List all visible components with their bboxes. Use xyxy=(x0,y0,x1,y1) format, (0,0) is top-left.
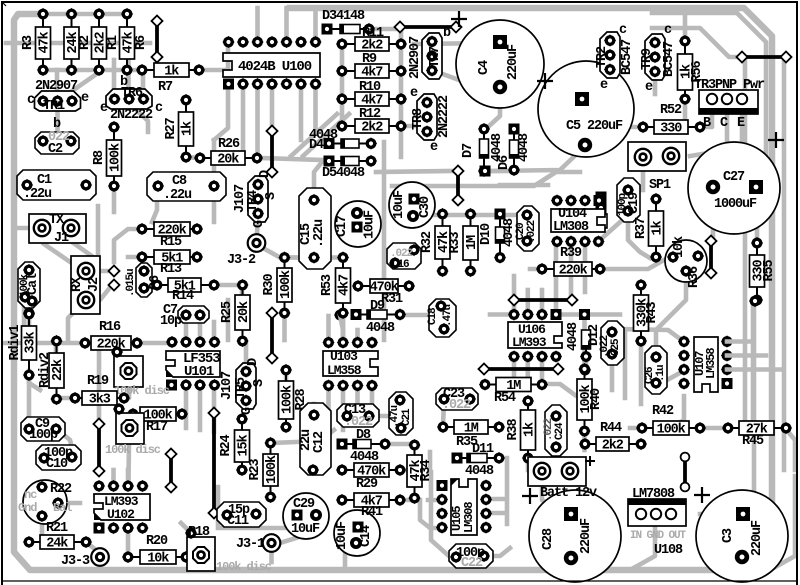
resistor R26 xyxy=(194,151,263,168)
svg-text:e: e xyxy=(645,80,653,95)
jumper W10 xyxy=(165,448,176,492)
svg-text:D54048: D54048 xyxy=(322,166,365,181)
svg-text:R39: R39 xyxy=(560,246,582,261)
wire R45 right xyxy=(785,428,795,470)
svg-text:J1: J1 xyxy=(54,231,69,246)
wire C28 bottom xyxy=(569,562,574,570)
svg-text:LM7808: LM7808 xyxy=(632,487,675,502)
svg-text:220uF: 220uF xyxy=(750,520,765,556)
svg-text:R26: R26 xyxy=(218,137,240,152)
svg-text:.022: .022 xyxy=(526,220,538,243)
wire jack region xyxy=(58,501,80,506)
svg-text:1k: 1k xyxy=(523,422,538,437)
svg-text:2k2: 2k2 xyxy=(361,121,383,136)
resistor R37 xyxy=(634,193,666,263)
jumper W3 xyxy=(736,51,791,62)
jumper W14 xyxy=(266,125,277,177)
capacitor C4 xyxy=(456,20,544,108)
svg-text:c: c xyxy=(27,93,35,108)
resistor R35 xyxy=(437,420,505,437)
svg-text:C21: C21 xyxy=(401,408,413,426)
wire J2 pads to diamonds xyxy=(90,269,112,274)
svg-text:10uF: 10uF xyxy=(363,210,378,239)
jumper W4 xyxy=(452,165,463,205)
capacitor C17 xyxy=(335,201,381,247)
svg-text:2k2: 2k2 xyxy=(602,439,624,454)
svg-text:2N2907: 2N2907 xyxy=(408,36,423,79)
svg-text:.22u: .22u xyxy=(163,188,192,203)
svg-text:20k: 20k xyxy=(217,153,239,168)
wire Cal bottom down xyxy=(22,305,27,333)
svg-text:b: b xyxy=(443,26,451,41)
wire R29 row xyxy=(400,468,413,473)
capacitor C27 xyxy=(688,142,780,234)
svg-text:LM393: LM393 xyxy=(512,335,547,350)
svg-text:10uF: 10uF xyxy=(291,522,320,537)
svg-text:TR9: TR9 xyxy=(640,48,655,70)
capacitor C15 xyxy=(299,188,331,269)
wire row y257 xyxy=(285,255,341,260)
wire TR3 C down xyxy=(690,104,727,156)
svg-text:R10: R10 xyxy=(359,80,381,95)
trimmer R18 xyxy=(185,527,215,571)
svg-text:C11: C11 xyxy=(227,514,249,529)
svg-text:10p: 10p xyxy=(160,314,182,329)
svg-text:220k: 220k xyxy=(559,264,588,279)
wire R15 row to C6 xyxy=(114,229,142,262)
svg-text:C22: C22 xyxy=(461,556,483,571)
wire C8 to R15 xyxy=(152,186,157,222)
diode D3 xyxy=(322,23,376,35)
svg-text:U103: U103 xyxy=(330,349,358,364)
resistor Rdiv2 xyxy=(38,335,66,405)
svg-text:R17: R17 xyxy=(146,420,168,435)
svg-text:R9: R9 xyxy=(362,52,377,67)
wire SP1 left pad down xyxy=(641,162,646,190)
wire row y215 C30-D10 xyxy=(413,213,499,218)
IC U106 xyxy=(508,308,562,362)
capacitor C19 xyxy=(617,178,642,222)
svg-text:C30: C30 xyxy=(418,196,433,218)
capacitor C1 xyxy=(17,170,96,202)
svg-text:IN GND OUT: IN GND OUT xyxy=(630,530,687,542)
capacitor C2 xyxy=(35,130,79,157)
svg-text:e: e xyxy=(410,86,418,101)
svg-text:U108: U108 xyxy=(654,543,683,558)
resistor R16 xyxy=(79,336,143,353)
svg-text:100k: 100k xyxy=(265,455,280,484)
svg-text:c: c xyxy=(155,101,163,116)
svg-text:R38: R38 xyxy=(506,418,521,440)
wire under C11 horizontal xyxy=(222,519,321,528)
wire TR3 E to C27 xyxy=(714,104,742,187)
resistor R17 xyxy=(127,407,188,424)
IC U105 xyxy=(436,479,492,535)
jack J4 xyxy=(18,480,72,524)
svg-text:100k disc: 100k disc xyxy=(216,560,272,574)
wire R27 bottom to R26 xyxy=(186,157,199,158)
wire C27 pad down xyxy=(711,191,716,240)
svg-text:R55: R55 xyxy=(762,259,777,281)
capacitor C29 xyxy=(283,493,329,539)
svg-text:.47u: .47u xyxy=(442,304,454,327)
resistor R20 xyxy=(122,550,192,567)
wire R55 top to C27 xyxy=(755,192,760,243)
wire U101 bottom stubs xyxy=(184,385,189,428)
wire pads to TR1 diagonal xyxy=(52,73,98,100)
svg-text:Rdiv2: Rdiv2 xyxy=(38,352,53,388)
wire R9-R12 left column xyxy=(340,44,345,126)
wire C13 right to R34col xyxy=(369,414,390,419)
wire R42 row xyxy=(700,426,728,431)
resistor R54 xyxy=(479,378,548,395)
resistor R55 xyxy=(750,237,778,306)
svg-text:LM308: LM308 xyxy=(553,220,589,235)
trimmer T1 xyxy=(111,346,143,387)
wire Rdiv2 top xyxy=(54,341,59,353)
diamond node a xyxy=(108,265,119,276)
svg-text:R11: R11 xyxy=(362,26,384,41)
svg-text:2N2222: 2N2222 xyxy=(437,95,452,138)
svg-text:D: D xyxy=(258,170,273,178)
resistor R14 xyxy=(151,278,220,295)
wire U104 to U106 verticals xyxy=(554,246,559,312)
wire board outline right xyxy=(290,8,772,560)
wire R42 left xyxy=(630,426,642,431)
wire C5 pad to D7/D6 row xyxy=(490,148,583,171)
svg-text:100p: 100p xyxy=(29,428,58,443)
resistor R27 xyxy=(164,94,196,163)
wire right mid verticals xyxy=(751,301,756,428)
svg-text:J107: J107 xyxy=(220,371,235,400)
diode D9 xyxy=(351,308,407,320)
jumper W9 xyxy=(93,418,104,476)
svg-text:R31: R31 xyxy=(381,292,403,307)
capacitor C3 xyxy=(696,490,788,582)
svg-text:.47u: .47u xyxy=(389,405,401,428)
diode D8 xyxy=(337,438,392,450)
capacitor C23 xyxy=(436,387,478,413)
svg-text:LM358: LM358 xyxy=(704,348,718,379)
wire R13 left xyxy=(128,255,142,260)
svg-text:b: b xyxy=(120,75,128,90)
wire U100 top stubs xyxy=(255,8,260,42)
wire Rdiv1 bottom down xyxy=(27,378,32,424)
wire Batt down to C28 xyxy=(542,486,556,510)
capacitor C24 xyxy=(543,405,567,456)
capacitor C13 xyxy=(337,403,379,430)
IC U100 xyxy=(222,36,321,90)
svg-text:U101: U101 xyxy=(184,364,214,380)
svg-text:nc: nc xyxy=(24,488,37,502)
svg-text:C2: C2 xyxy=(48,142,63,157)
svg-text:e: e xyxy=(100,101,108,116)
wire D8 row xyxy=(385,442,413,447)
jumper W11 xyxy=(681,453,690,492)
svg-text:R32: R32 xyxy=(420,231,435,253)
svg-text:Gnd: Gnd xyxy=(18,501,37,515)
svg-text:1000uF: 1000uF xyxy=(714,197,757,212)
resistor R45 xyxy=(722,421,792,438)
svg-text:100k: 100k xyxy=(19,273,31,297)
wire R18 diag xyxy=(181,523,191,533)
wire U106 pin14 left xyxy=(512,276,517,312)
resistor R2 xyxy=(64,8,93,76)
resistor Rdiv1 xyxy=(8,308,39,381)
cross mark 3 xyxy=(768,132,784,148)
wire BC547 stubs down xyxy=(598,70,610,110)
svg-text:C3: C3 xyxy=(721,528,736,543)
svg-text:4048: 4048 xyxy=(517,133,532,162)
wire R56 down xyxy=(683,99,688,118)
wire R30 down to U101 area xyxy=(282,313,287,340)
transistor TR7 xyxy=(422,33,442,79)
wire D3 to R11 xyxy=(369,29,401,157)
wire J2 to R16 row xyxy=(68,302,84,340)
svg-text:e: e xyxy=(600,78,608,93)
wire Rdiv1 column xyxy=(27,314,32,326)
resistor R1 xyxy=(92,8,122,76)
wire R21 right to J3-3 xyxy=(86,542,96,550)
wire C25 top to U107 xyxy=(620,329,683,341)
svg-text:C16: C16 xyxy=(392,259,409,271)
wire R1 col down to TR6 xyxy=(112,60,117,97)
wire R54 right xyxy=(542,384,575,395)
resistor R6 xyxy=(120,8,150,76)
square pad D12 top xyxy=(579,309,590,320)
svg-text:1k: 1k xyxy=(651,220,666,235)
svg-text:R7: R7 xyxy=(158,80,173,95)
svg-text:e: e xyxy=(430,140,438,155)
transistor TR8 xyxy=(411,94,437,140)
wire R26 right to D5 xyxy=(262,158,322,160)
transistor TR9 xyxy=(640,34,665,80)
svg-text:20k: 20k xyxy=(237,301,252,323)
wire top-right inner 1 xyxy=(652,13,766,210)
svg-text:C29: C29 xyxy=(293,497,315,512)
wire R40 col xyxy=(582,431,587,450)
svg-text:100k: 100k xyxy=(279,270,294,299)
svg-text:R23: R23 xyxy=(248,458,263,480)
wire R14 right to R25 xyxy=(214,283,242,288)
resistor R12 xyxy=(336,119,407,136)
wire C19 down xyxy=(628,216,650,258)
transistor TR4 xyxy=(248,176,268,222)
wire U101 top stubs xyxy=(184,320,189,342)
svg-text:R36: R36 xyxy=(687,266,702,288)
wire U105 right pads xyxy=(486,497,505,502)
wire C25 down xyxy=(610,364,615,390)
svg-text:24k: 24k xyxy=(46,537,68,552)
wire C3 bottom xyxy=(740,562,745,570)
label plus batt xyxy=(585,456,595,466)
wire C9/C10 area xyxy=(57,429,72,448)
cross mark 1 xyxy=(451,11,467,27)
svg-text:R6: R6 xyxy=(134,35,149,50)
svg-text:R42: R42 xyxy=(652,404,674,419)
wire J3-1 right xyxy=(280,538,296,543)
diode D5 xyxy=(324,155,378,167)
svg-text:G: G xyxy=(252,220,267,228)
resistor R43 xyxy=(634,279,661,347)
wire R41 row xyxy=(400,498,413,503)
transistor TR2 xyxy=(595,32,620,78)
svg-text:S: S xyxy=(252,379,267,387)
square pad D6 bottom xyxy=(480,166,491,177)
svg-text:R54: R54 xyxy=(494,391,516,406)
diode D7 xyxy=(478,123,490,177)
speaker connector SP1 xyxy=(628,142,686,171)
svg-text:15k: 15k xyxy=(237,434,252,456)
resistor R28 xyxy=(279,364,310,433)
jumper W2 xyxy=(394,21,461,32)
svg-text:4048: 4048 xyxy=(465,464,494,479)
wire R40 up to square pad xyxy=(582,318,587,369)
resistor R32 xyxy=(420,208,452,277)
svg-text:R20: R20 xyxy=(146,534,168,549)
wire U102 top stubs xyxy=(111,470,116,486)
resistor R9 xyxy=(336,64,407,81)
wire C14 down to band xyxy=(343,554,348,570)
svg-text:R44: R44 xyxy=(600,421,622,436)
IC U102 xyxy=(93,480,150,534)
svg-text:c: c xyxy=(619,23,627,38)
pad node above U103 xyxy=(334,309,346,321)
svg-text:4048: 4048 xyxy=(566,322,581,351)
wire TR3 B to R52 xyxy=(702,104,712,127)
capacitor C8 xyxy=(147,172,226,203)
wire R39 row xyxy=(530,267,542,272)
svg-text:R18: R18 xyxy=(188,525,210,540)
resistor R29 xyxy=(336,463,406,480)
wire top-right inner 2 xyxy=(652,28,740,57)
capacitor C20 xyxy=(515,206,539,251)
svg-text:R33: R33 xyxy=(448,231,463,253)
battery connector xyxy=(528,457,586,486)
wire C6 to R14 xyxy=(144,283,156,288)
capacitor C6 xyxy=(125,263,163,297)
capacitor C14 xyxy=(334,510,380,556)
diamond node b xyxy=(108,279,119,290)
wire trimpot2 down xyxy=(126,443,131,480)
jumper W7 xyxy=(478,363,563,374)
capacitor C5 xyxy=(538,61,634,157)
wire diagonals left of D4 xyxy=(303,114,349,156)
wire TR5 column xyxy=(244,342,249,364)
svg-text:R37: R37 xyxy=(634,217,649,239)
wire R36 to C26 xyxy=(656,272,686,352)
wire TR1 base xyxy=(55,70,60,92)
svg-text:R15: R15 xyxy=(160,235,182,250)
connector J3-2 xyxy=(248,234,266,252)
svg-text:Bal: Bal xyxy=(53,501,72,515)
jumper W5 xyxy=(266,307,277,363)
svg-text:R34: R34 xyxy=(419,459,434,481)
resistor R3 xyxy=(21,8,53,76)
capacitor C9 xyxy=(21,417,65,443)
svg-text:C28: C28 xyxy=(541,528,556,550)
wire U102/U105 mid links xyxy=(420,500,442,528)
svg-text:D7: D7 xyxy=(461,143,476,158)
wire TR6 down-right diagonal xyxy=(129,103,148,132)
svg-text:TR2: TR2 xyxy=(595,46,610,68)
transistor TR9 xyxy=(645,34,665,80)
wire jack to R21 xyxy=(40,516,45,534)
svg-text:C19: C19 xyxy=(627,192,642,214)
svg-text:4048: 4048 xyxy=(366,321,395,336)
wire trimpot1 to R19 xyxy=(124,386,129,398)
wire C1 left to border xyxy=(14,183,26,188)
wire U107 left stubs xyxy=(670,396,684,428)
svg-text:10k: 10k xyxy=(672,236,687,258)
svg-text:R30: R30 xyxy=(262,273,277,295)
wire top resistor row R3-R6 xyxy=(42,12,127,17)
svg-text:RX: RX xyxy=(70,276,85,292)
svg-text:1k: 1k xyxy=(164,65,179,80)
svg-text:C10: C10 xyxy=(46,457,68,472)
wire right vertical x795 xyxy=(770,476,795,570)
IC U104 xyxy=(551,194,605,247)
pad node below D12 xyxy=(579,364,591,376)
wire U100 bottom stubs xyxy=(241,84,246,150)
resistor R21 xyxy=(23,535,92,552)
svg-text:D10: D10 xyxy=(479,223,494,245)
wire pad down to U103 xyxy=(340,315,343,342)
wire mid horizontal y186 xyxy=(392,172,580,186)
diode D4 xyxy=(324,137,378,149)
svg-text:R52: R52 xyxy=(660,103,682,118)
svg-text:4024B U100: 4024B U100 xyxy=(238,59,312,75)
transistor TR7 xyxy=(422,33,443,79)
svg-text:TR4: TR4 xyxy=(246,190,261,212)
resistor R25 xyxy=(220,279,252,347)
svg-text:R25: R25 xyxy=(220,301,235,323)
capacitor C10 xyxy=(36,445,81,472)
svg-text:C25: C25 xyxy=(610,338,622,356)
transistor TR6 xyxy=(106,86,152,109)
svg-text:10uF: 10uF xyxy=(335,521,350,550)
svg-text:R27: R27 xyxy=(164,117,179,139)
svg-text:10k: 10k xyxy=(147,552,169,567)
resistor R56 xyxy=(678,35,706,105)
svg-text:100k: 100k xyxy=(657,423,686,438)
resistor R11 xyxy=(336,37,407,54)
wire C8 down to J2 xyxy=(96,206,101,253)
wire R56 top xyxy=(683,16,688,41)
svg-text:D34148: D34148 xyxy=(322,9,365,24)
svg-text:C12: C12 xyxy=(312,431,327,453)
resistor R31 xyxy=(352,279,415,296)
svg-text:R3: R3 xyxy=(21,35,36,50)
svg-text:330: 330 xyxy=(660,122,682,137)
wire R35 down stub xyxy=(428,452,433,468)
svg-text:R8: R8 xyxy=(92,150,107,165)
wire C23 down to R35 xyxy=(443,404,444,424)
svg-text:.1u: .1u xyxy=(655,365,667,382)
wire U103 bottom stubs xyxy=(326,385,331,420)
svg-text:J107: J107 xyxy=(233,184,248,213)
svg-text:2N2907: 2N2907 xyxy=(35,79,78,94)
trimmer T2 xyxy=(113,403,144,444)
svg-text:C18: C18 xyxy=(427,307,439,325)
wire TR4 to J3-2 xyxy=(257,214,258,234)
svg-text:C5 220uF: C5 220uF xyxy=(566,119,623,134)
resistor R52 xyxy=(637,120,706,137)
svg-text:J3-1: J3-1 xyxy=(236,537,265,552)
svg-text:4k7: 4k7 xyxy=(361,66,383,81)
jumper W6 xyxy=(508,294,577,305)
svg-text:LM308: LM308 xyxy=(462,502,476,533)
